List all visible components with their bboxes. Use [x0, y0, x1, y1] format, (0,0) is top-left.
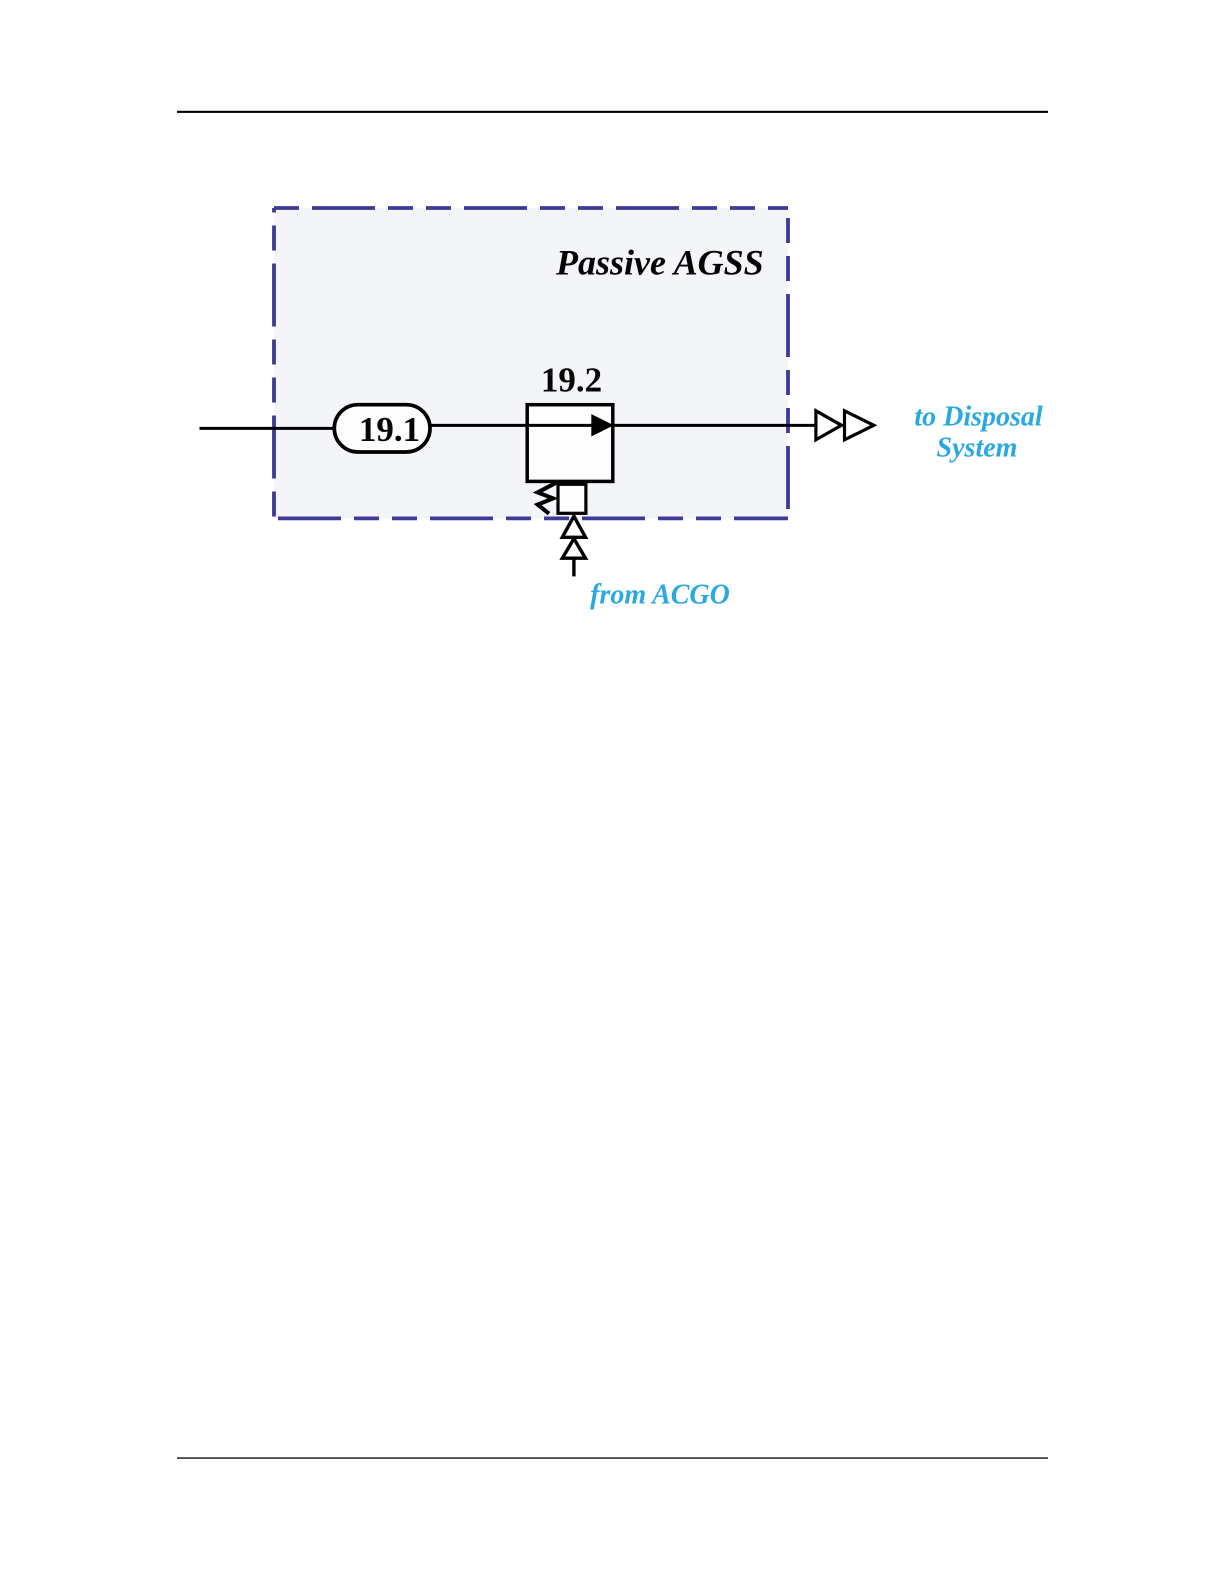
wire: line segment through valve body [527, 424, 613, 427]
svg-text:System: System [937, 432, 1018, 463]
svg-text:19.1: 19.1 [359, 410, 420, 449]
boundary box dashed left edge [272, 208, 276, 518]
outlet double arrow, second open triangle [845, 411, 874, 440]
pilot arrowhead upper (open triangle) [562, 516, 585, 537]
svg-text:from ACGO: from ACGO [590, 579, 730, 610]
boundary box dashed top edge [274, 206, 788, 210]
flow arrowhead inside valve 19.2 [591, 414, 614, 436]
spring (zigzag) under valve 19.2 [538, 483, 556, 514]
wire: inlet line into 19.1 [200, 427, 341, 430]
pilot port (small box under valve) [558, 484, 586, 513]
node 19.1 (oval component) [334, 405, 430, 452]
header rule [177, 111, 1048, 113]
wire: line from 19.1 through valve 19.2 to outlet arrows [428, 424, 816, 427]
svg-text:Passive AGSS: Passive AGSS [555, 243, 764, 283]
Passive AGSS boundary box (fill) [274, 208, 788, 518]
boundary box dashed right edge [786, 208, 790, 518]
wire: vertical inlet stem from ACGO [572, 558, 575, 576]
valve 19.2 (body box) [527, 405, 613, 482]
svg-text:19.2: 19.2 [541, 361, 602, 400]
pilot arrowhead lower (open triangle) [562, 539, 585, 559]
footer rule [177, 1457, 1048, 1458]
outlet double arrow, first open triangle [816, 411, 842, 440]
svg-text:to Disposal: to Disposal [914, 402, 1043, 433]
boundary box dashed bottom edge [274, 517, 788, 521]
